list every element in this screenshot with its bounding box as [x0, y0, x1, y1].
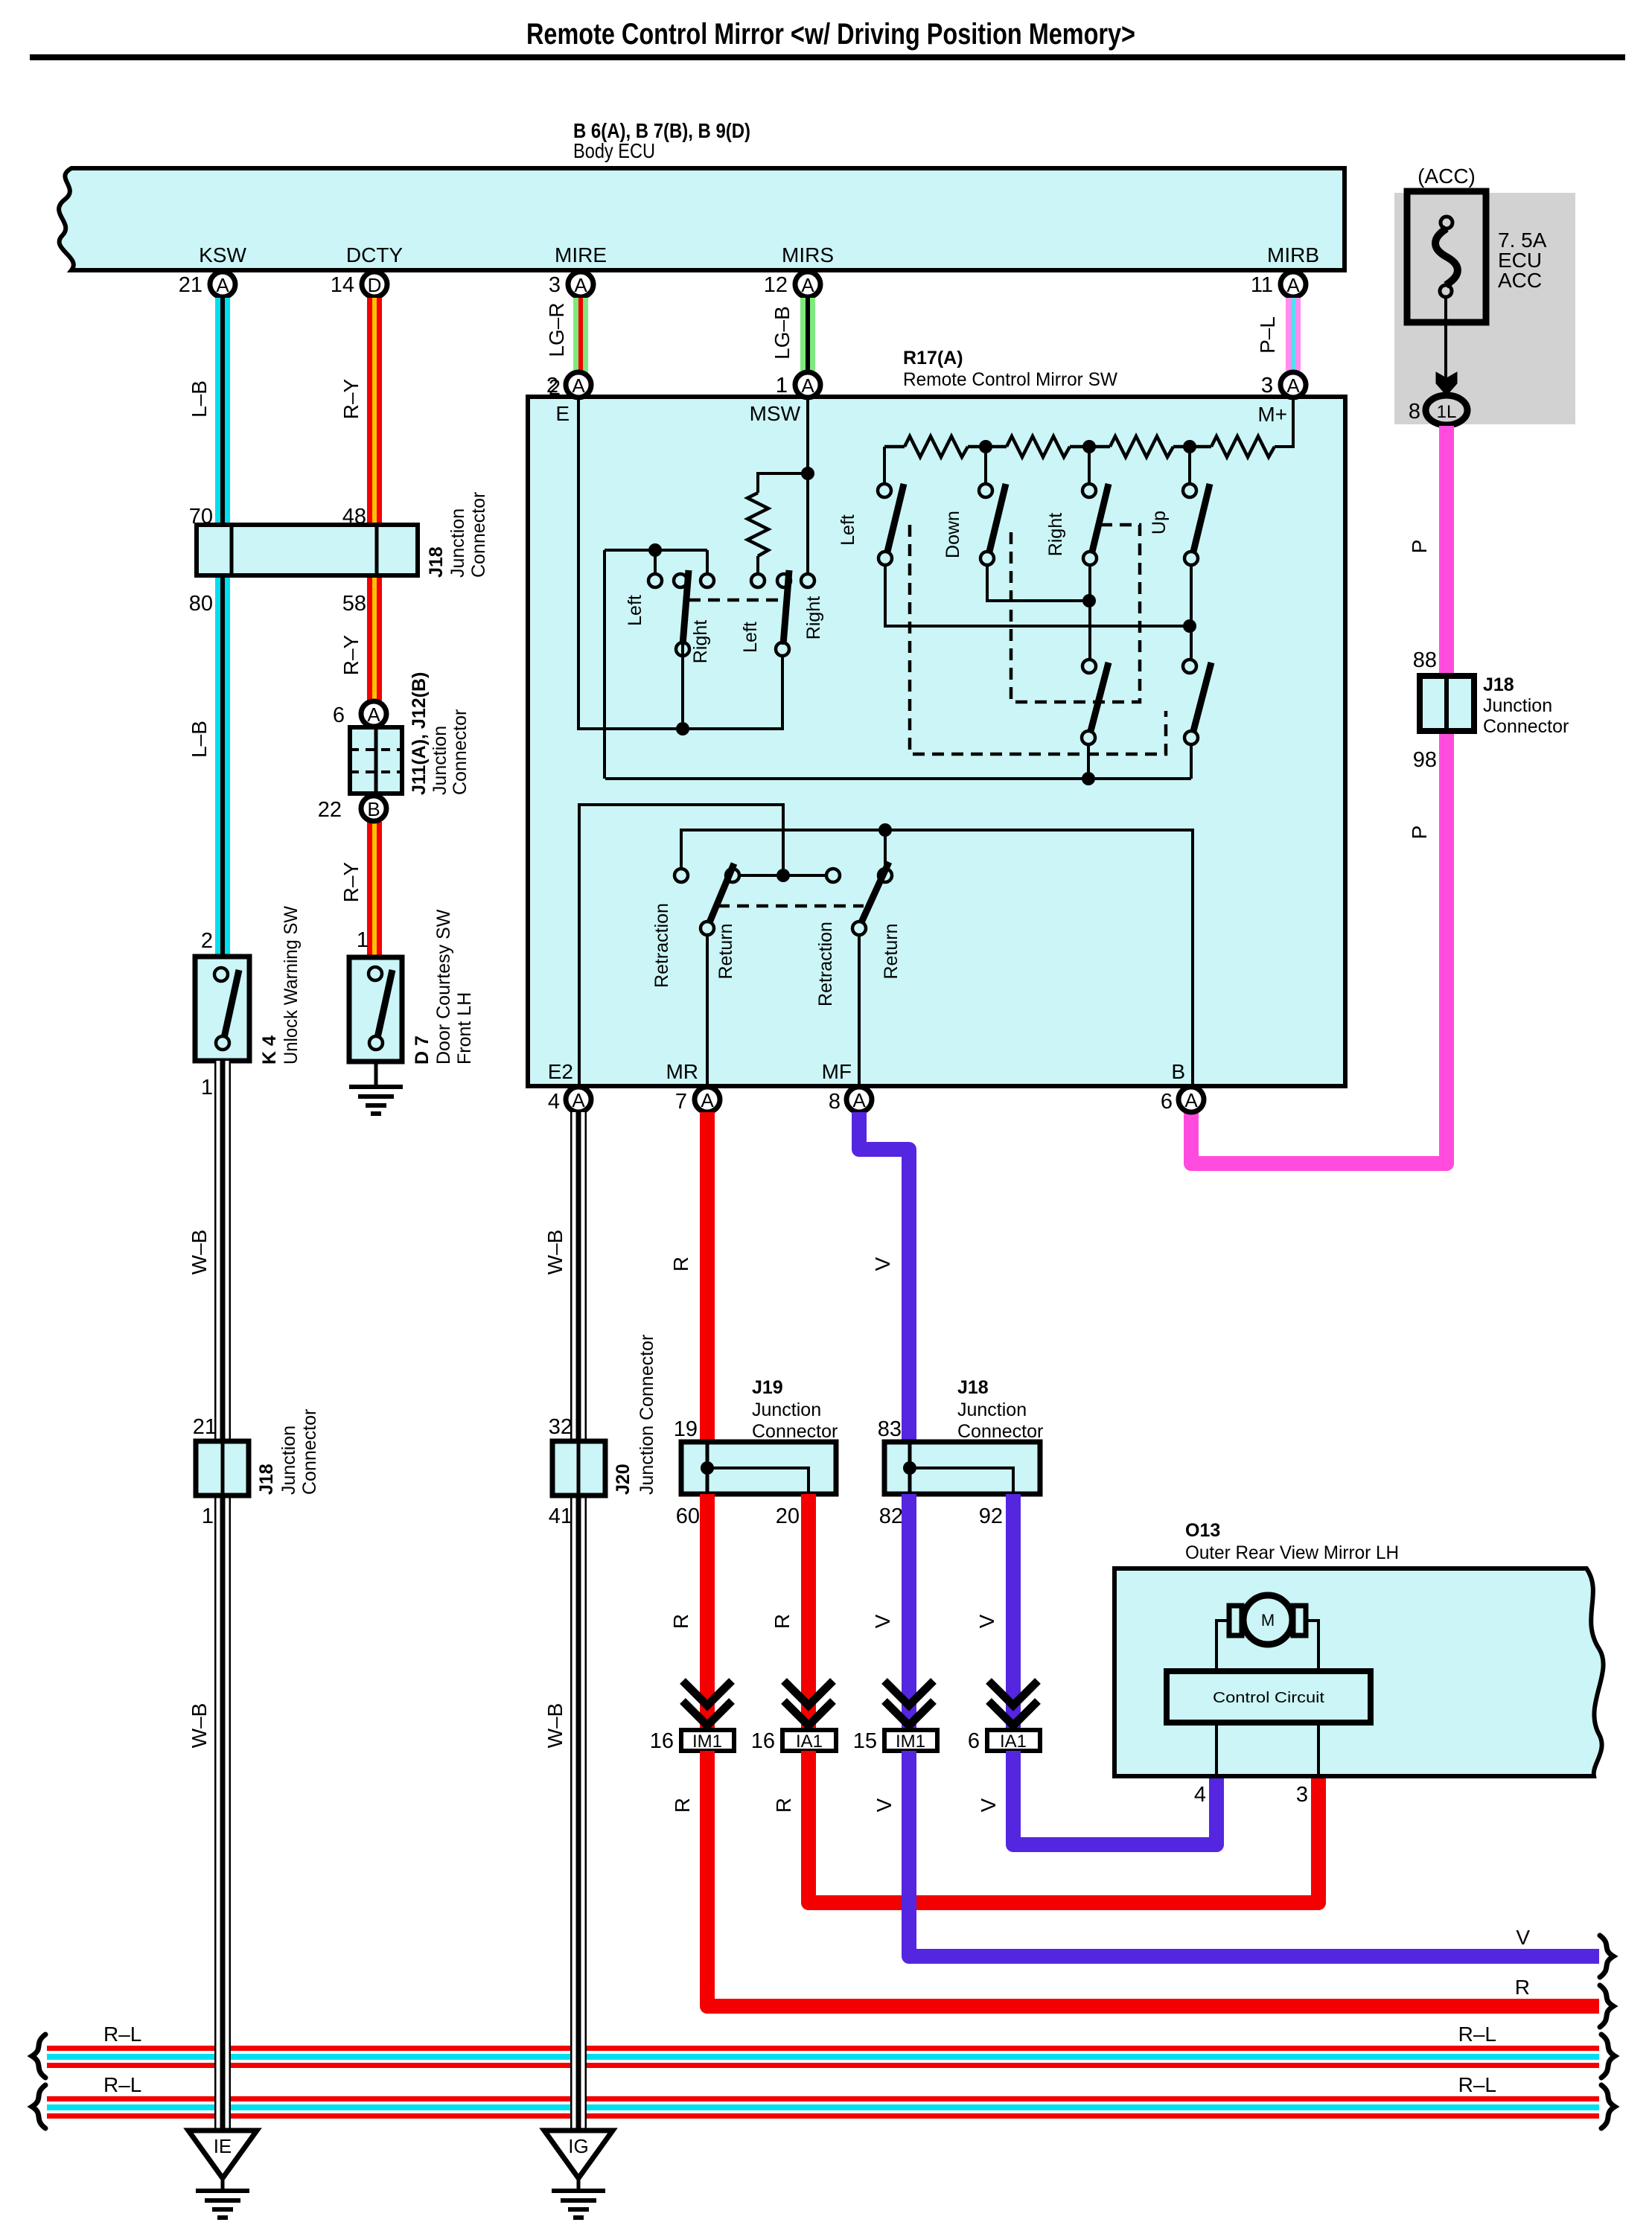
svg-text:V: V — [975, 1614, 998, 1628]
svg-text:B: B — [1171, 1060, 1185, 1083]
mirror pins 4 and 3 — [1215, 1723, 1218, 1776]
svg-text:J18: J18 — [957, 1377, 989, 1398]
svg-text:R–L: R–L — [103, 2023, 141, 2046]
svg-text:8: 8 — [1409, 400, 1420, 424]
bracket linking contacts — [605, 550, 707, 573]
svg-text:MIRB: MIRB — [1267, 243, 1319, 266]
svg-text:A: A — [367, 703, 380, 726]
svg-text:MSW: MSW — [750, 402, 801, 425]
wire R to mirror pin 3 — [809, 1751, 1318, 1903]
wire LG-B from MIRS to R17 pin MSW — [800, 298, 815, 371]
svg-text:4: 4 — [1194, 1783, 1206, 1807]
svg-text:Left: Left — [625, 595, 645, 626]
svg-text:Outer Rear View Mirror LH: Outer Rear View Mirror LH — [1185, 1542, 1399, 1563]
svg-text:92: 92 — [979, 1504, 1003, 1528]
svg-text:J18: J18 — [1483, 674, 1514, 695]
connector IM1 pin 15 — [884, 1681, 934, 1705]
pin 8(A) MF of R17 — [846, 1087, 872, 1112]
svg-text:98: 98 — [1413, 748, 1437, 772]
svg-text:21: 21 — [193, 1415, 217, 1439]
blade Right — [1092, 484, 1109, 552]
svg-text:P: P — [1408, 540, 1431, 554]
svg-text:Right: Right — [803, 596, 824, 639]
svg-text:1L: 1L — [1437, 402, 1457, 422]
wire LG-R from MIRE to R17 pin E — [573, 298, 588, 373]
svg-text:W–B: W–B — [188, 1703, 211, 1749]
title rule — [30, 54, 1625, 60]
junction connector J20 (32/41) — [552, 1441, 605, 1496]
svg-text:Connector: Connector — [1483, 716, 1569, 737]
wire L-B from KSW to K4 — [215, 298, 230, 957]
svg-text:A: A — [1286, 374, 1300, 397]
svg-text:Return: Return — [881, 923, 902, 979]
svg-text:1: 1 — [201, 1076, 213, 1099]
svg-text:Connector: Connector — [299, 1409, 320, 1495]
svg-text:7: 7 — [675, 1090, 687, 1114]
svg-text:60: 60 — [676, 1504, 700, 1528]
svg-text:D 7: D 7 — [412, 1035, 433, 1065]
svg-text:A: A — [801, 274, 814, 296]
contact circles of MSW select switch — [648, 574, 662, 587]
wire to mirror connector — [1006, 1494, 1021, 1730]
wire to mirror connector — [700, 1494, 715, 1730]
wire E2 riser and top link — [579, 805, 783, 1086]
svg-text:4: 4 — [548, 1090, 560, 1114]
wire V from MF to J18 — [859, 1112, 909, 1442]
svg-text:A: A — [852, 1089, 866, 1111]
svg-text:R–Y: R–Y — [339, 861, 363, 902]
junction connector J18 (21/1) — [196, 1441, 249, 1496]
svg-text:P: P — [1408, 826, 1431, 840]
svg-text:Left: Left — [740, 622, 761, 653]
control circuit box — [1167, 1671, 1371, 1723]
svg-text:IA1: IA1 — [796, 1732, 823, 1752]
retraction switch 1 common — [701, 922, 714, 935]
commons row1 — [878, 552, 892, 565]
svg-text:IA1: IA1 — [1000, 1732, 1027, 1752]
svg-text:IM1: IM1 — [896, 1732, 925, 1752]
svg-text:Junction: Junction — [957, 1399, 1027, 1420]
svg-text:R: R — [772, 1798, 795, 1813]
wire to mirror connector — [902, 1494, 916, 1730]
wire to MF pin — [858, 936, 861, 1086]
gang dash Down-Right pair — [1011, 525, 1140, 702]
svg-text:A: A — [1184, 1089, 1198, 1111]
svg-text:32: 32 — [549, 1415, 573, 1439]
wire B riser link — [681, 830, 1193, 1086]
svg-text:LG–B: LG–B — [771, 306, 794, 360]
blade Down — [989, 484, 1006, 552]
svg-text:W–B: W–B — [543, 1703, 567, 1749]
svg-text:E2: E2 — [548, 1060, 573, 1083]
connector 1L pin 8 — [1426, 395, 1467, 425]
lower bus wire — [605, 777, 1191, 780]
svg-text:R–Y: R–Y — [339, 378, 363, 419]
svg-text:A: A — [572, 374, 585, 397]
junction connector J19 — [681, 1442, 836, 1494]
svg-text:V: V — [977, 1798, 1000, 1812]
gang dashes retraction — [718, 904, 864, 908]
svg-text:W–B: W–B — [188, 1230, 211, 1275]
commons row2 — [1082, 731, 1095, 744]
svg-text:Up: Up — [1149, 511, 1170, 534]
svg-text:IE: IE — [214, 2135, 232, 2157]
junction on E line — [676, 722, 689, 735]
connector IA1 pin 6 — [989, 1681, 1038, 1705]
junction on MSW line — [801, 467, 814, 480]
switch D7 Door Courtesy SW Front LH — [349, 957, 402, 1062]
wire Down common to Right column — [987, 566, 1086, 601]
svg-text:6: 6 — [1161, 1090, 1173, 1114]
wire Right column down — [1088, 566, 1091, 659]
svg-text:IG: IG — [568, 2135, 588, 2157]
fuse 7.5A ECU ACC — [1407, 191, 1486, 322]
fuse block gray area — [1394, 193, 1575, 424]
wire R-L bundle — [47, 2096, 1599, 2101]
svg-text:V: V — [871, 1257, 894, 1271]
wire R long to right — [707, 1751, 1599, 2006]
svg-text:R: R — [1515, 1976, 1530, 1999]
resistor in MSW divider — [747, 493, 768, 556]
svg-text:B: B — [367, 798, 380, 820]
svg-text:21: 21 — [179, 273, 202, 297]
arrow into 1L — [1436, 372, 1457, 395]
svg-text:K 4: K 4 — [259, 1035, 280, 1065]
svg-text:Retraction: Retraction — [651, 903, 672, 988]
svg-text:1: 1 — [202, 1504, 214, 1528]
wire R-Y from DCTY to D7 — [367, 298, 382, 525]
connector IA1 pin 16 — [784, 1681, 833, 1705]
wire M+ down to resistor chain — [1275, 399, 1293, 447]
retraction switch 1 blade — [709, 864, 734, 922]
wire from fuse to 1L — [1444, 297, 1447, 380]
svg-text:A: A — [801, 374, 814, 397]
svg-text:Junction Connector: Junction Connector — [637, 1335, 657, 1495]
gang dashes between select blades — [689, 599, 782, 602]
gang dash Left to row2 — [910, 525, 1166, 754]
svg-text:80: 80 — [189, 592, 213, 616]
wire W-B from K4 to ground IE — [214, 1061, 231, 1441]
svg-text:R: R — [669, 1614, 692, 1629]
svg-text:R–Y: R–Y — [339, 634, 363, 675]
svg-text:O13: O13 — [1185, 1520, 1220, 1541]
pin 3(A) M+ of R17 — [1281, 372, 1306, 398]
svg-text:V: V — [873, 1798, 896, 1812]
svg-text:Unlock Warning SW: Unlock Warning SW — [281, 906, 302, 1065]
svg-text:V: V — [871, 1614, 894, 1628]
svg-text:2: 2 — [201, 929, 213, 953]
svg-text:Right: Right — [690, 620, 711, 663]
svg-text:Left: Left — [838, 514, 858, 546]
svg-text:Connector: Connector — [450, 709, 471, 795]
svg-text:2: 2 — [546, 374, 558, 398]
wire V long to right — [909, 1751, 1599, 1956]
wire branch to resistor — [758, 473, 808, 493]
svg-text:MR: MR — [666, 1060, 698, 1083]
svg-text:J20: J20 — [613, 1464, 634, 1495]
contacts row2 — [1082, 660, 1096, 673]
svg-text:M+: M+ — [1257, 403, 1287, 426]
svg-text:R17(A): R17(A) — [903, 348, 963, 368]
svg-text:Junction: Junction — [430, 726, 450, 795]
wire Left common to Up column — [885, 566, 1190, 626]
wire to MR pin — [706, 936, 709, 1086]
svg-text:Right: Right — [1045, 513, 1066, 556]
junction connector J11(A), J12(B) — [361, 701, 386, 727]
svg-text:A: A — [1286, 274, 1300, 296]
blade row2 up-col — [1193, 663, 1211, 731]
junction dots on chain — [979, 440, 992, 453]
mirror O13 Outer Rear View Mirror LH — [1114, 1568, 1604, 1776]
svg-text:6: 6 — [333, 703, 345, 727]
svg-text:Junction: Junction — [1483, 695, 1552, 716]
svg-text:16: 16 — [751, 1729, 775, 1753]
svg-text:R–L: R–L — [103, 2073, 141, 2096]
pin 1(A) MSW of R17 — [795, 372, 820, 398]
svg-text:Remote Control Mirror <w/ Driv: Remote Control Mirror <w/ Driving Positi… — [526, 18, 1135, 51]
svg-text:J18: J18 — [256, 1464, 277, 1495]
wire to mirror connector — [801, 1494, 816, 1730]
svg-text:(ACC): (ACC) — [1417, 165, 1476, 188]
svg-text:Down: Down — [943, 511, 963, 558]
blade Left — [887, 484, 904, 552]
svg-text:KSW: KSW — [199, 243, 246, 266]
svg-text:Junction: Junction — [752, 1399, 821, 1420]
svg-text:Connector: Connector — [957, 1421, 1043, 1442]
svg-text:Connector: Connector — [752, 1421, 838, 1442]
svg-text:R: R — [771, 1614, 794, 1629]
wire E vertical to switch commons — [578, 399, 782, 729]
wire P from 1L to R17 pin B — [1191, 426, 1447, 1164]
svg-text:16: 16 — [650, 1729, 674, 1753]
svg-text:11: 11 — [1251, 273, 1273, 297]
retraction switch 2 common — [852, 922, 866, 935]
ground IG — [544, 2131, 613, 2178]
wire R-L bundle — [47, 2046, 1599, 2051]
svg-text:Body ECU: Body ECU — [573, 139, 655, 162]
svg-text:L–B: L–B — [188, 721, 211, 758]
stubs to contacts — [883, 447, 886, 484]
svg-text:J18: J18 — [426, 546, 447, 578]
svg-text:R: R — [669, 1257, 692, 1271]
svg-text:8: 8 — [829, 1090, 841, 1114]
svg-text:3: 3 — [549, 273, 561, 297]
svg-text:Junction: Junction — [278, 1426, 299, 1495]
svg-text:W–B: W–B — [543, 1230, 567, 1275]
motor M — [1243, 1595, 1292, 1644]
svg-text:L–B: L–B — [188, 380, 211, 418]
wires commons row2 to bus — [1087, 745, 1090, 772]
svg-text:IM1: IM1 — [692, 1732, 722, 1752]
wire W-B from E2 to ground IG — [570, 1112, 587, 1441]
svg-text:41: 41 — [549, 1504, 573, 1528]
select switch 2 common — [776, 642, 789, 656]
link between contacts — [740, 874, 826, 877]
svg-text:A: A — [216, 274, 229, 296]
svg-text:R: R — [671, 1798, 694, 1813]
svg-text:MIRE: MIRE — [555, 243, 607, 266]
retraction switch 2 blade — [861, 862, 889, 922]
resistor chain — [884, 445, 905, 449]
svg-text:20: 20 — [776, 1504, 800, 1528]
select switch 1 common — [676, 642, 689, 656]
svg-text:Junction: Junction — [447, 508, 468, 578]
svg-text:MF: MF — [822, 1060, 852, 1083]
svg-text:Door Courtesy SW: Door Courtesy SW — [433, 909, 454, 1065]
svg-text:Retraction: Retraction — [815, 922, 836, 1006]
svg-text:P–L: P–L — [1256, 316, 1279, 354]
svg-text:R–L: R–L — [1458, 2023, 1496, 2046]
svg-text:Return: Return — [715, 923, 736, 979]
svg-text:83: 83 — [878, 1417, 902, 1441]
svg-text:A: A — [572, 1089, 585, 1111]
svg-text:E: E — [555, 402, 570, 425]
svg-text:14: 14 — [331, 273, 354, 297]
svg-text:R–L: R–L — [1458, 2073, 1496, 2096]
svg-text:Remote Control Mirror SW: Remote Control Mirror SW — [903, 369, 1117, 390]
ground at D7 — [374, 1062, 378, 1085]
svg-text:A: A — [701, 1089, 714, 1111]
select switch 2 blade — [783, 570, 789, 645]
svg-text:MIRS: MIRS — [782, 243, 834, 266]
blade Up — [1193, 484, 1210, 552]
svg-text:12: 12 — [764, 273, 788, 297]
pin 4(A) E2 of R17 — [566, 1087, 591, 1112]
svg-text:Front LH: Front LH — [454, 992, 475, 1065]
svg-text:1: 1 — [357, 928, 369, 952]
svg-text:A: A — [574, 274, 587, 296]
connector IM1 pin 16 — [683, 1681, 732, 1705]
switch assembly R17(A) Remote Control Mirror SW — [528, 397, 1345, 1086]
svg-text:15: 15 — [853, 1729, 877, 1753]
pin 6(A) B of R17 — [1179, 1087, 1204, 1112]
wire MSW vertical — [806, 399, 809, 573]
svg-text:J11(A), J12(B): J11(A), J12(B) — [409, 672, 430, 795]
svg-text:88: 88 — [1413, 648, 1437, 672]
svg-text:82: 82 — [879, 1504, 903, 1528]
junction connector J18 (70/48-80/58) — [197, 525, 418, 575]
svg-text:Connector: Connector — [468, 492, 489, 578]
svg-text:3: 3 — [1296, 1783, 1308, 1807]
pin 2(A) E of R17 — [566, 372, 591, 398]
svg-text:LG–R: LG–R — [545, 302, 568, 357]
wire from bracket down to lower bus — [603, 550, 606, 779]
svg-text:19: 19 — [674, 1417, 698, 1441]
junction connector J18 (83/82-92) — [884, 1442, 1040, 1494]
svg-text:J19: J19 — [752, 1377, 783, 1398]
ground IE — [188, 2131, 257, 2178]
wire Up column down — [1190, 566, 1193, 659]
svg-text:M: M — [1261, 1611, 1275, 1630]
switch K4 Unlock Warning SW — [195, 957, 249, 1061]
svg-text:22: 22 — [318, 798, 342, 822]
contacts row1 — [878, 484, 891, 497]
svg-text:DCTY: DCTY — [346, 243, 404, 266]
ECU B: Body ECU block — [59, 168, 1345, 270]
svg-text:58: 58 — [342, 592, 366, 616]
junction connector J18 (88/98) on P wire — [1420, 676, 1474, 731]
pin 7(A) MR of R17 — [695, 1087, 720, 1112]
svg-text:Control Circuit: Control Circuit — [1213, 1690, 1325, 1706]
wire R from MR to J19 — [700, 1112, 715, 1442]
svg-text:D: D — [368, 274, 382, 296]
svg-text:6: 6 — [968, 1729, 980, 1753]
svg-text:V: V — [1516, 1926, 1530, 1949]
svg-text:ACC: ACC — [1498, 269, 1542, 292]
select switch 1 blade — [683, 570, 689, 645]
svg-text:3: 3 — [1261, 374, 1273, 398]
retraction contacts — [674, 869, 688, 882]
blade row2 right-col — [1091, 663, 1109, 731]
wire P-L from MIRB to R17 pin M+ — [1286, 298, 1301, 371]
svg-text:1: 1 — [776, 374, 788, 398]
wires motor to control circuit — [1216, 1621, 1229, 1671]
wire V to mirror pin 4 — [1013, 1751, 1216, 1845]
